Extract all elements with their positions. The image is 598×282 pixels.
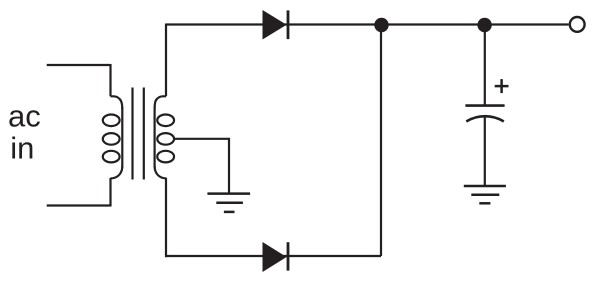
svg-text:ac: ac bbox=[8, 99, 41, 134]
svg-text:in: in bbox=[10, 131, 34, 166]
